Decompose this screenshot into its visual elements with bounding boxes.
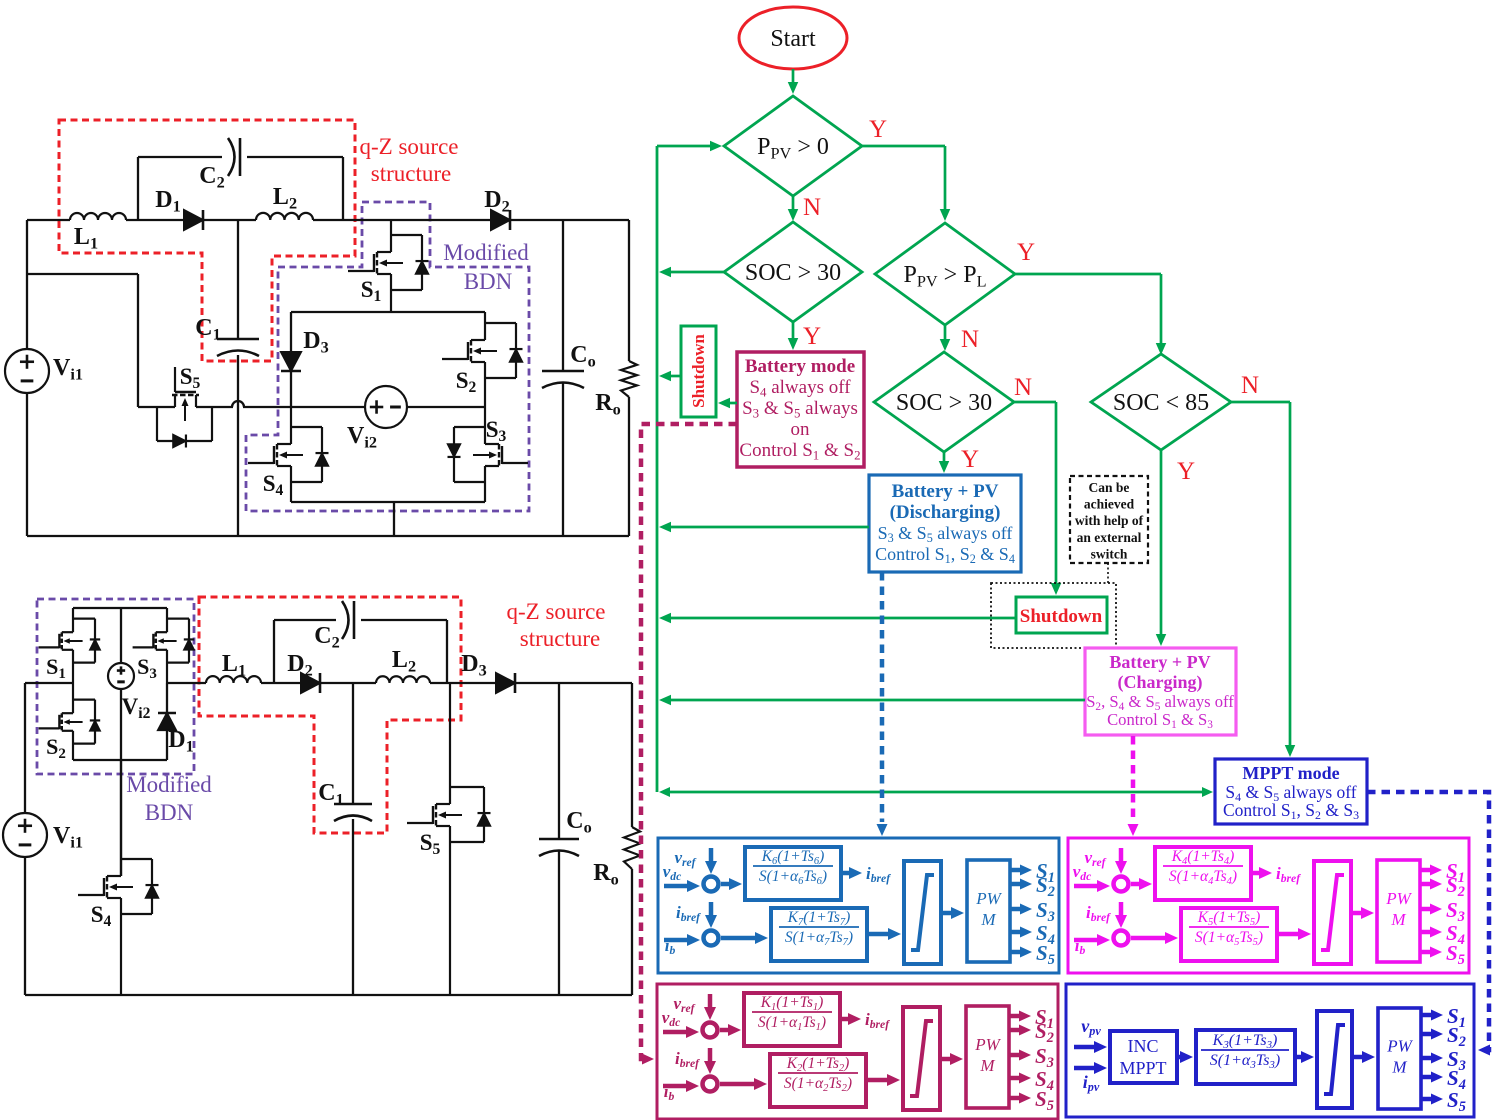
inductor L2 — [256, 213, 313, 220]
mosfet S4 — [120, 760, 122, 876]
PWM block (blue) — [967, 860, 1010, 962]
Modified BDN outline (purple dashed) — [246, 202, 529, 511]
wire: start to PPV>0 — [792, 69, 795, 84]
wire: SOC<85 N branch — [1231, 401, 1290, 404]
wire: bus to MPPT (double arrow) — [666, 791, 1206, 794]
wire: left rail — [26, 220, 28, 349]
wire: C1 branch — [352, 683, 354, 804]
svg-text:N: N — [803, 194, 821, 221]
svg-text:M: M — [1390, 910, 1406, 929]
mosfet S4 — [290, 407, 292, 444]
dotted link note to shutdown2 — [1107, 563, 1109, 583]
svg-text:PPV > PL: PPV > PL — [903, 262, 986, 290]
wire: C1 branch — [237, 220, 239, 339]
wire: SOC<85 Y branch — [1160, 450, 1163, 636]
transfer fn K3 — [1196, 1030, 1295, 1084]
svg-text:PPV > 0: PPV > 0 — [757, 134, 829, 162]
dashed connector: charging to magenta controller — [1131, 736, 1136, 822]
wire: top rail — [27, 219, 70, 221]
INC MPPT block — [1110, 1031, 1177, 1083]
svg-text:PW: PW — [1386, 1037, 1413, 1056]
mosfet S3 — [484, 407, 486, 444]
wire: H bridge top — [73, 607, 167, 609]
gate signal outputs S1-S5 — [1421, 1013, 1433, 1018]
dashed connector: MPPT mode to navy controller — [1367, 792, 1489, 1050]
svg-text:N: N — [961, 326, 979, 353]
svg-text:with help of: with help of — [1075, 513, 1144, 528]
wire: right rail — [628, 220, 630, 361]
gate signal outputs S1-S5 (crimson) — [1009, 1014, 1021, 1019]
decision PPV>PL — [875, 223, 1015, 325]
svg-text:MPPT: MPPT — [1119, 1058, 1166, 1078]
transfer fn K6 (blue) — [745, 847, 841, 900]
PWM block (crimson) — [966, 1006, 1009, 1108]
svg-text:BDN: BDN — [145, 800, 194, 825]
svg-text:Modified: Modified — [126, 772, 212, 797]
capacitor C1 — [334, 803, 372, 806]
wire: shutdown2 to bus — [669, 617, 1016, 620]
diode D3 — [290, 312, 292, 351]
wire: battery mode to shutdown — [728, 402, 737, 405]
inductor L2 — [376, 676, 430, 683]
wire: H bridge bottom — [73, 759, 167, 761]
svg-text:(Charging): (Charging) — [1118, 672, 1203, 693]
wire: left rail — [24, 683, 26, 813]
svg-text:Y: Y — [869, 116, 887, 143]
wire: SOC>30 N to shutdown2 — [1014, 401, 1056, 404]
svg-text:Y: Y — [1017, 239, 1035, 266]
wire: PPV>PL N branch — [944, 325, 947, 341]
mosfet S1 — [390, 220, 392, 252]
source Vi2 — [108, 663, 134, 689]
gate signal outputs S1-S5 (magenta) — [1420, 868, 1432, 873]
svg-text:S3 & S5 always: S3 & S5 always — [742, 398, 858, 420]
svg-text:N: N — [1241, 372, 1259, 399]
capacitor Co — [539, 838, 579, 841]
green feedback bus — [656, 146, 659, 792]
capacitor Co — [542, 370, 584, 373]
svg-text:Modified: Modified — [443, 240, 529, 265]
summing junction 2 (magenta) — [1114, 931, 1129, 946]
svg-text:BDN: BDN — [464, 269, 513, 294]
svg-text:SOC > 30: SOC > 30 — [896, 390, 992, 416]
wire: stub to mid rail — [27, 273, 138, 275]
process box Shutdown vertical — [681, 326, 716, 417]
Modified BDN outline (purple dashed) — [37, 599, 194, 774]
svg-text:INC: INC — [1128, 1036, 1159, 1056]
svg-text:Y: Y — [1177, 458, 1195, 485]
wire: PPV>0 N branch — [792, 196, 795, 211]
capacitor C1 — [217, 338, 259, 341]
start ellipse — [739, 7, 847, 69]
svg-text:Y: Y — [803, 323, 821, 350]
svg-text:achieved: achieved — [1084, 497, 1135, 512]
wire: main rail — [167, 682, 206, 684]
svg-text:SOC > 30: SOC > 30 — [745, 260, 841, 286]
svg-text:MPPT mode: MPPT mode — [1242, 763, 1339, 783]
svg-text:structure: structure — [371, 161, 451, 186]
svg-text:N: N — [1014, 374, 1032, 401]
process box Battery+PV discharging — [869, 475, 1021, 572]
controller block MPPT (navy) — [1066, 984, 1474, 1117]
saturation block (magenta) — [1314, 861, 1351, 964]
capacitor C2 — [342, 601, 349, 639]
summing junction 1 (blue) — [704, 877, 719, 892]
summing junction 1 (crimson) — [703, 1023, 718, 1038]
wire: Co branch — [558, 683, 560, 839]
PWM block (magenta) — [1377, 860, 1420, 962]
wire: lower H link — [291, 501, 485, 503]
wire: C2 branch — [273, 620, 275, 683]
diode D1 — [166, 683, 168, 713]
summing junction 2 (blue) — [704, 931, 719, 946]
svg-text:Can be: Can be — [1089, 480, 1130, 495]
wire: bottom rail — [25, 994, 632, 996]
source Vi2 — [365, 386, 407, 428]
label ibref out (blue) — [841, 871, 851, 876]
dashed connector: discharging to blue controller — [880, 572, 885, 822]
controller block crimson — [657, 984, 1058, 1119]
summing junction 1 (magenta) — [1114, 877, 1129, 892]
wire: SOC>30 N to bus — [669, 271, 724, 274]
controller block blue — [658, 838, 1059, 973]
gate signal outputs S1-S5 (blue) — [1010, 868, 1022, 873]
diode D3 — [496, 673, 515, 693]
transfer fn K7 (blue) — [771, 908, 867, 961]
resistor Ro — [624, 827, 640, 869]
svg-text:Battery + PV: Battery + PV — [1109, 652, 1210, 672]
svg-text:Y: Y — [961, 446, 979, 473]
decision SOC>30 second — [874, 352, 1014, 452]
decision SOC>30 first — [724, 222, 862, 322]
svg-text:switch: switch — [1091, 546, 1128, 561]
process box MPPT mode — [1215, 759, 1367, 824]
saturation block (crimson) — [903, 1007, 940, 1110]
inductor L1 — [70, 213, 126, 220]
saturation block (blue) — [904, 861, 941, 964]
wire: Co branch — [562, 220, 564, 371]
svg-text:PW: PW — [975, 889, 1002, 908]
label ibref out (crimson) — [840, 1017, 850, 1022]
wire: right rail — [631, 683, 633, 827]
wire: C2 branch — [137, 157, 139, 220]
mosfet S5 — [174, 395, 176, 407]
svg-text:Start: Start — [770, 26, 816, 52]
mosfet S2 — [72, 683, 74, 713]
PWM block — [1378, 1008, 1421, 1109]
decision PPV>0 — [724, 96, 862, 196]
saturation block — [1317, 1011, 1352, 1108]
svg-text:Control S1 & S2: Control S1 & S2 — [739, 440, 860, 462]
svg-text:Battery + PV: Battery + PV — [892, 481, 999, 502]
wire: bottom rail — [27, 535, 629, 537]
source Vi1 — [3, 813, 47, 857]
diode D2 — [491, 210, 510, 230]
svg-text:Shutdown: Shutdown — [1020, 606, 1103, 627]
svg-text:PW: PW — [974, 1035, 1001, 1054]
transfer fn K5 (magenta) — [1181, 908, 1277, 961]
summing junction 2 (crimson) — [703, 1077, 718, 1092]
svg-text:Shutdown: Shutdown — [689, 334, 708, 408]
mosfet S5 — [449, 683, 451, 804]
diode D2 — [301, 673, 320, 693]
mosfet S3 — [166, 608, 168, 632]
svg-text:on: on — [791, 419, 811, 440]
wire: PPV>0 Y branch — [862, 145, 945, 148]
svg-text:PW: PW — [1385, 889, 1412, 908]
wire: shutdown to bus — [669, 375, 681, 378]
wire hop over C1 leg — [232, 401, 244, 407]
q-Z source structure outline (red dashed) — [59, 120, 355, 361]
bottom-left converter circuit — [3, 597, 640, 995]
svg-text:SOC < 85: SOC < 85 — [1113, 390, 1209, 416]
wire: PPV>PL Y branch — [1015, 273, 1161, 276]
dotted box around shutdown2 — [991, 583, 1116, 648]
svg-text:q-Z source: q-Z source — [360, 134, 459, 159]
svg-text:(Discharging): (Discharging) — [890, 502, 1001, 523]
wire: charging to bus — [669, 699, 1085, 702]
process box Shutdown 2 — [1016, 597, 1107, 633]
capacitor C2 — [228, 138, 235, 176]
process box Battery mode — [737, 352, 864, 467]
process box Battery+PV charging — [1085, 648, 1236, 735]
controller block magenta — [1068, 838, 1469, 973]
diode D1 — [184, 210, 203, 230]
svg-text:M: M — [980, 910, 996, 929]
mosfet S1 — [72, 608, 74, 632]
wire: SOC>30 Y down — [792, 322, 795, 340]
svg-text:structure: structure — [520, 626, 600, 651]
resistor Ro — [621, 361, 637, 397]
q-Z source structure outline (red dashed) — [199, 597, 461, 833]
decision SOC<85 — [1091, 354, 1231, 450]
wire: SOC>30 Y down — [943, 452, 946, 463]
transfer fn K1 (crimson) — [744, 993, 840, 1046]
flowchart — [657, 7, 1367, 824]
svg-text:q-Z source: q-Z source — [507, 599, 606, 624]
svg-text:an external: an external — [1077, 530, 1142, 545]
source Vi1 — [5, 349, 49, 393]
svg-text:Control S1 & S3: Control S1 & S3 — [1107, 710, 1213, 731]
note box: can be achieved with external switch — [1070, 476, 1148, 563]
wire: mid-left link — [25, 682, 73, 684]
dashed connector: battery mode to crimson controller — [641, 424, 737, 1059]
wire: discharging to bus — [669, 526, 869, 529]
transfer fn K2 (crimson) — [770, 1054, 866, 1107]
svg-text:M: M — [979, 1056, 995, 1075]
inductor L1 — [206, 676, 261, 683]
top-left converter circuit — [5, 120, 637, 536]
mosfet S2 — [484, 312, 486, 340]
svg-text:Battery mode: Battery mode — [745, 356, 855, 377]
wire: upper H link — [291, 311, 485, 313]
wire: mid rail — [138, 406, 175, 408]
label ibref out (magenta) — [1251, 871, 1261, 876]
wire: bus into PPV>0 — [657, 145, 712, 148]
svg-text:M: M — [1391, 1058, 1407, 1077]
svg-text:S3 & S5 always off: S3 & S5 always off — [878, 523, 1013, 545]
transfer fn K4 (magenta) — [1155, 847, 1251, 900]
